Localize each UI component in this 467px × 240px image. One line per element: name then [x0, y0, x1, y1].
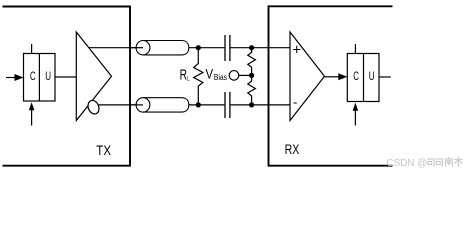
- node dot top-left junction: [196, 45, 201, 50]
- clock tick on top of RX C/U block: [354, 44, 356, 54]
- node dot bottom-left junction: [196, 102, 201, 107]
- clock tick on top of TX C/U block: [31, 44, 33, 54]
- svg-text:RX: RX: [285, 141, 300, 157]
- svg-text:V: V: [206, 66, 214, 82]
- node dot bottom-right junction: [249, 102, 254, 107]
- wire: TX C/U block to driver: [55, 76, 76, 78]
- wire: input into TX C/U block: [6, 77, 16, 79]
- svg-text:C: C: [30, 69, 36, 83]
- TX enclosure box: [3, 7, 131, 166]
- glyph ke 1: [427, 159, 435, 166]
- arrowhead up into RX C/U block bottom: [353, 103, 359, 111]
- svg-text:CSDN @: CSDN @: [386, 158, 427, 169]
- driver triangle (TX): [76, 32, 111, 121]
- resistor lower termination: [248, 75, 256, 105]
- coax cable (bottom pair wire): [130, 98, 189, 112]
- node dot top-right junction: [249, 45, 254, 50]
- C/U divider (TX): [38, 54, 40, 102]
- wire: VBias terminal to center tap: [239, 74, 252, 76]
- watermark CJK glyphs (drawn): [427, 157, 462, 167]
- wire: bottom capacitor to RX: [231, 104, 291, 106]
- svg-text:TX: TX: [96, 142, 111, 158]
- capacitor (bottom, AC coupling): [224, 92, 226, 118]
- svg-text:L: L: [187, 75, 190, 82]
- block C/U (TX): [24, 54, 56, 102]
- svg-text:U: U: [45, 69, 51, 83]
- wire: comparator output: [325, 76, 341, 78]
- C/U divider (RX): [363, 54, 365, 102]
- resistor RL across the pair: [194, 48, 203, 105]
- arrowhead into TX C/U block: [15, 74, 24, 81]
- wire: RX C/U block output stub: [379, 76, 391, 78]
- resistor upper termination: [248, 48, 256, 76]
- svg-text:+: +: [292, 41, 301, 58]
- wire: TX driver non-inverting output (top line to cable): [89, 47, 143, 49]
- wire: bottom cable to capacitor: [189, 104, 225, 106]
- svg-text:Bias: Bias: [214, 73, 227, 82]
- comparator triangle (RX): [290, 32, 325, 121]
- VBias terminal circle: [229, 71, 239, 81]
- svg-text:R: R: [180, 67, 187, 83]
- wire: TX driver inverting output (bottom line to cable): [99, 104, 143, 106]
- wire: bottom arrow into RX C/U block: [354, 109, 356, 126]
- glyph ke 2: [436, 159, 444, 166]
- arrowhead up into TX C/U block bottom: [29, 102, 35, 110]
- svg-text:-: -: [293, 94, 297, 109]
- svg-text:U: U: [369, 69, 375, 83]
- capacitor (top, AC coupling): [224, 35, 226, 61]
- inversion bubble on TX driver lower output: [86, 99, 101, 116]
- glyph mu: [454, 157, 462, 167]
- wire: bottom arrow into TX C/U block: [31, 108, 33, 126]
- glyph nan: [445, 157, 453, 167]
- svg-text:C: C: [353, 69, 359, 83]
- arrowhead into RX C/U block: [338, 73, 347, 80]
- wire: top capacitor to RX: [231, 47, 291, 49]
- wire: top cable to capacitor: [189, 47, 225, 49]
- RX enclosure box: [269, 6, 393, 165]
- coax cable (top pair wire): [130, 41, 189, 55]
- node dot center-tap junction: [249, 73, 254, 78]
- block C/U (RX): [347, 54, 379, 102]
